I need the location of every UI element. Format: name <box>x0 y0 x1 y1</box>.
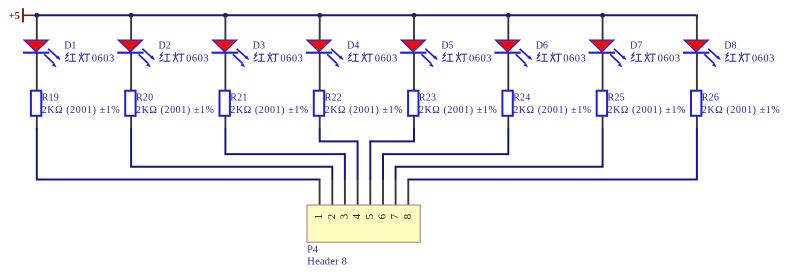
svg-text:4: 4 <box>351 213 363 219</box>
svg-text:R22: R22 <box>325 93 342 104</box>
label 红灯 0603 (D7) <box>631 53 680 65</box>
svg-text:R20: R20 <box>136 93 153 104</box>
resistor R24 <box>502 91 512 116</box>
label 红灯 0603 (D2) <box>160 53 209 65</box>
resistor R23 <box>408 91 418 116</box>
LED D6 <box>494 40 532 67</box>
junction node D2 on +5 rail <box>129 13 134 18</box>
svg-text:D2: D2 <box>159 40 171 51</box>
label 红灯 0603 (D5) <box>443 53 492 65</box>
svg-text:0603: 0603 <box>186 53 209 64</box>
wire/pins D5 cathode to R23 <box>413 53 415 91</box>
svg-text:D5: D5 <box>441 40 453 51</box>
R22 bottom pin <box>319 116 321 129</box>
P4 pin 8 <box>407 180 409 206</box>
P4 pin 3 <box>344 180 346 206</box>
wire/pins D3 cathode to R21 <box>224 53 226 91</box>
resistor R19 <box>31 91 41 116</box>
D3 anode pin <box>224 15 226 40</box>
label 红灯 0603 (D6) <box>537 53 586 65</box>
junction node D1 on +5 rail <box>34 13 39 18</box>
svg-text:2: 2 <box>326 214 338 220</box>
LED D3 <box>212 40 250 67</box>
wire +5 rail <box>37 14 697 16</box>
junction node D6 on +5 rail <box>506 13 511 18</box>
svg-text:D6: D6 <box>536 40 548 51</box>
resistor R21 <box>220 91 230 116</box>
R21 bottom pin <box>224 116 226 129</box>
svg-text:R25: R25 <box>608 93 625 104</box>
wire/pins D6 cathode to R24 <box>507 53 509 91</box>
R25 bottom pin <box>602 116 604 129</box>
wire/pins D8 cathode to R26 <box>696 53 698 91</box>
wire R25 to P4 pin 7 <box>396 128 603 180</box>
svg-text:D7: D7 <box>630 40 642 51</box>
wire rail corner down to D8 <box>696 14 698 18</box>
wire R20 to P4 pin 2 <box>131 128 332 180</box>
junction node D4 on +5 rail <box>317 13 322 18</box>
svg-text:6: 6 <box>377 213 389 219</box>
R24 bottom pin <box>507 116 509 129</box>
LED D1 <box>23 40 61 67</box>
resistor R26 <box>691 91 701 116</box>
resistor R22 <box>314 91 324 116</box>
D4 anode pin <box>319 15 321 40</box>
D5 anode pin <box>413 15 415 40</box>
svg-text:2KΩ (2001) ±1%: 2KΩ (2001) ±1% <box>702 105 781 116</box>
svg-text:0603: 0603 <box>92 53 115 64</box>
svg-text:Header 8: Header 8 <box>307 257 347 268</box>
label 红灯 0603 (D8) <box>726 53 775 65</box>
junction node D3 on +5 rail <box>223 13 228 18</box>
svg-text:2KΩ (2001) ±1%: 2KΩ (2001) ±1% <box>419 105 498 116</box>
svg-text:2KΩ (2001) ±1%: 2KΩ (2001) ±1% <box>42 105 121 116</box>
LED D5 <box>400 40 438 67</box>
svg-text:R26: R26 <box>702 93 719 104</box>
wire R23 to P4 pin 5 <box>370 128 414 180</box>
wire R19 to P4 pin 1 <box>37 128 320 180</box>
svg-text:+5: +5 <box>9 11 20 22</box>
D6 anode pin <box>507 15 509 40</box>
svg-text:D1: D1 <box>64 40 76 51</box>
P4 pin 2 <box>331 180 333 206</box>
connector P4 body (Header 8) <box>307 205 420 242</box>
R23 bottom pin <box>413 116 415 129</box>
junction node D7 on +5 rail <box>600 13 605 18</box>
svg-text:D4: D4 <box>347 40 359 51</box>
R26 bottom pin <box>696 116 698 129</box>
D2 anode pin <box>130 15 132 40</box>
svg-text:2KΩ (2001) ±1%: 2KΩ (2001) ±1% <box>325 105 404 116</box>
svg-text:0603: 0603 <box>469 53 492 64</box>
svg-text:5: 5 <box>364 213 376 219</box>
LED D8 <box>683 40 721 67</box>
wire R24 to P4 pin 6 <box>383 128 508 180</box>
svg-text:D8: D8 <box>724 40 736 51</box>
svg-text:0603: 0603 <box>563 53 586 64</box>
R19 bottom pin <box>36 116 38 129</box>
wire/pins D4 cathode to R22 <box>319 53 321 91</box>
svg-text:R19: R19 <box>42 93 59 104</box>
LED D2 <box>117 40 155 67</box>
resistor R20 <box>125 91 135 116</box>
wire/pins D1 cathode to R19 <box>36 53 38 91</box>
power port +5 <box>9 8 37 22</box>
wire R22 to P4 pin 4 <box>320 128 358 180</box>
svg-text:R24: R24 <box>513 93 530 104</box>
label 红灯 0603 (D3) <box>254 53 303 65</box>
P4 pin 4 <box>357 180 359 206</box>
P4 pin 6 <box>382 180 384 206</box>
svg-text:R21: R21 <box>230 93 247 104</box>
svg-text:0603: 0603 <box>280 53 303 64</box>
R20 bottom pin <box>130 116 132 129</box>
svg-text:R23: R23 <box>419 93 436 104</box>
P4 pin 7 <box>395 180 397 206</box>
P4 pin 5 <box>369 180 371 206</box>
svg-text:8: 8 <box>402 213 414 219</box>
svg-text:1: 1 <box>313 214 325 220</box>
wire/pins D7 cathode to R25 <box>602 53 604 91</box>
svg-text:7: 7 <box>389 213 401 219</box>
svg-text:0603: 0603 <box>375 53 398 64</box>
wire R26 to P4 pin 8 <box>408 128 697 180</box>
label 红灯 0603 (D1) <box>65 53 114 65</box>
svg-text:2KΩ (2001) ±1%: 2KΩ (2001) ±1% <box>608 105 687 116</box>
D7 anode pin <box>602 15 604 40</box>
svg-text:2KΩ (2001) ±1%: 2KΩ (2001) ±1% <box>136 105 215 116</box>
resistor R25 <box>597 91 607 116</box>
svg-text:0603: 0603 <box>658 53 681 64</box>
svg-text:2KΩ (2001) ±1%: 2KΩ (2001) ±1% <box>513 105 592 116</box>
junction node D5 on +5 rail <box>412 13 417 18</box>
P4 pin 1 <box>319 180 321 206</box>
D1 anode pin <box>36 15 38 40</box>
label 红灯 0603 (D4) <box>348 53 397 65</box>
svg-text:P4: P4 <box>307 244 318 255</box>
svg-text:D3: D3 <box>253 40 265 51</box>
svg-text:2KΩ (2001) ±1%: 2KΩ (2001) ±1% <box>230 105 309 116</box>
LED D7 <box>589 40 627 67</box>
LED D4 <box>306 40 344 67</box>
D8 anode pin <box>696 15 698 40</box>
svg-text:3: 3 <box>339 213 351 219</box>
wire/pins D2 cathode to R20 <box>130 53 132 91</box>
wire R21 to P4 pin 3 <box>225 128 345 180</box>
svg-text:0603: 0603 <box>752 53 775 64</box>
